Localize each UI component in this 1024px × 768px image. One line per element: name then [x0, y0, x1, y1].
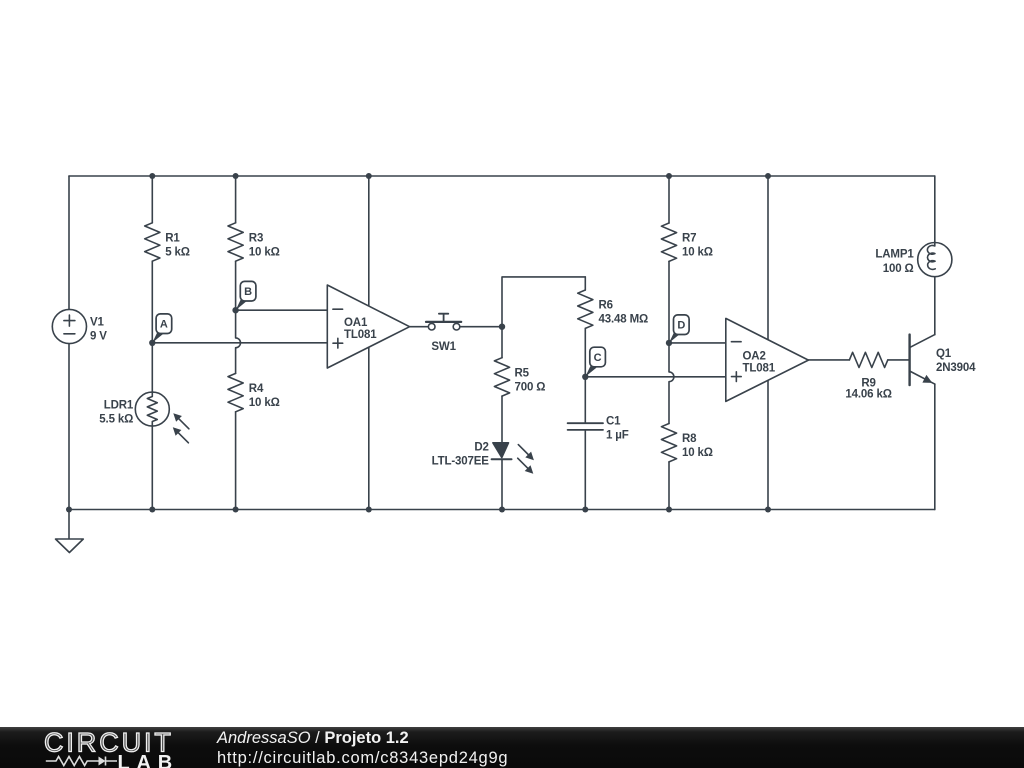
switch SW1 [426, 314, 461, 330]
capacitor C1 plates [568, 423, 603, 430]
R8 value label [682, 433, 713, 459]
wire R4 to bottom rail [235, 412, 237, 510]
R6 value label [599, 299, 649, 325]
svg-text:R5: R5 [515, 367, 530, 379]
wire SW1 to junction [460, 326, 502, 328]
D2 value label [432, 442, 490, 468]
svg-text:D: D [677, 320, 685, 332]
svg-text:TL081: TL081 [743, 363, 776, 375]
svg-text:LAMP1: LAMP1 [875, 249, 914, 261]
wire junction down to R5 [501, 327, 503, 358]
svg-text:2N3904: 2N3904 [936, 362, 976, 374]
wire LAMP1 top lead [934, 176, 936, 243]
wire R1 branch upper [151, 176, 153, 223]
op-amp OA1 [327, 285, 409, 368]
LAMP1 value label [875, 249, 914, 275]
svg-text:LAB: LAB [118, 752, 180, 768]
svg-text:Q1: Q1 [936, 348, 952, 360]
transistor Q1 [910, 335, 935, 386]
resistor R9 horizontal [849, 352, 887, 367]
photoresistor LDR1 [135, 392, 169, 426]
node C junction dot [582, 374, 588, 380]
svg-text:10 kΩ: 10 kΩ [249, 397, 280, 409]
wire R3 to R4 with hop over node A wire [236, 261, 241, 373]
R5 value label [515, 367, 546, 393]
wire D2 to bottom rail [501, 459, 503, 509]
node A label [152, 314, 171, 343]
wire R5 to D2 [501, 396, 503, 443]
wire top rail [69, 175, 935, 177]
svg-text:9 V: 9 V [90, 330, 107, 342]
svg-text:1 µF: 1 µF [606, 429, 629, 441]
svg-text:TL081: TL081 [344, 329, 377, 341]
wire V1 bottom lead to ground [68, 344, 70, 539]
svg-text:C1: C1 [606, 415, 621, 427]
svg-text:700 Ω: 700 Ω [515, 381, 546, 393]
wire node D to OA2 minus input [669, 342, 726, 344]
svg-text:43.48 MΩ: 43.48 MΩ [599, 313, 649, 325]
svg-text:LTL-307EE: LTL-307EE [432, 456, 490, 468]
svg-text:R6: R6 [599, 299, 613, 311]
CircuitLab logo [44, 729, 184, 768]
wire Q1 emitter to bottom rail [934, 384, 936, 509]
svg-text:OA2: OA2 [743, 351, 766, 363]
resistor R1 [145, 223, 160, 261]
wire LDR1 to bottom rail [151, 426, 153, 509]
wire junction up and over to R6 [502, 277, 585, 327]
resistor R4 [228, 373, 243, 411]
logo resistor-diode glyph [46, 757, 117, 766]
OA1 value label [344, 317, 377, 341]
footer title text [217, 730, 409, 746]
V1 value label [90, 316, 107, 342]
svg-text:SW1: SW1 [431, 341, 456, 353]
svg-text:5.5 kΩ: 5.5 kΩ [99, 414, 133, 426]
ground symbol [56, 539, 84, 553]
wire OA1 output to SW1 [410, 326, 429, 328]
resistor R3 [228, 223, 243, 261]
resistor R7 [661, 223, 676, 261]
R9 value label [845, 377, 891, 400]
wire bottom rail [69, 509, 935, 511]
C1 value label [606, 415, 629, 441]
wire R1 to LDR1 [151, 261, 153, 392]
Q1 value label [936, 348, 976, 374]
R3 value label [249, 233, 280, 259]
svg-text:R4: R4 [249, 383, 264, 395]
wire R9 to Q1 base [888, 359, 909, 361]
svg-text:R8: R8 [682, 433, 697, 445]
svg-text:D2: D2 [474, 442, 488, 454]
svg-text:R7: R7 [682, 233, 696, 245]
svg-text:100 Ω: 100 Ω [883, 263, 914, 275]
wire top corner to R6 [584, 277, 586, 290]
lamp LAMP1 [918, 243, 952, 277]
OA2 value label [743, 351, 776, 375]
svg-text:R3: R3 [249, 233, 263, 245]
resistor R8 [661, 424, 676, 462]
svg-text:LDR1: LDR1 [104, 400, 134, 412]
wire node C to OA2 plus input [585, 376, 726, 378]
wire V1 top lead [68, 176, 70, 309]
LDR1 value label [99, 400, 134, 426]
svg-text:10 kΩ: 10 kΩ [682, 447, 713, 459]
svg-text:10 kΩ: 10 kΩ [682, 247, 713, 259]
R7 value label [682, 233, 713, 259]
node C label [585, 347, 605, 377]
svg-text:A: A [160, 319, 168, 331]
LDR1 light arrows [173, 413, 189, 443]
wire OA2 power rail vertical [767, 176, 769, 510]
wire node B to op-amp minus input [236, 309, 328, 311]
wire LAMP1 to Q1 collector [934, 277, 936, 335]
svg-text:V1: V1 [90, 316, 105, 328]
footer bar [0, 727, 1024, 768]
wire node A to op-amp plus input [152, 342, 327, 344]
svg-text:10 kΩ: 10 kΩ [249, 247, 280, 259]
SW1 value label [431, 341, 456, 353]
switch output junction dot [499, 324, 505, 330]
node A junction dot [149, 340, 155, 346]
wire OA1 power rail vertical [368, 176, 370, 510]
wire OA2 output to R9 [808, 359, 849, 361]
LED D2 [492, 443, 534, 474]
svg-text:R1: R1 [165, 233, 180, 245]
wire R7 branch upper [668, 176, 670, 223]
footer url text [217, 750, 508, 766]
resistor R5 [494, 358, 509, 396]
wire R7 to R8 with hop over node C wire [669, 261, 674, 423]
wire R6 to node C to C1 top plate [584, 328, 586, 423]
node D junction dot [666, 340, 672, 346]
voltage source V1 [52, 309, 86, 343]
svg-text:14.06 kΩ: 14.06 kΩ [845, 388, 891, 400]
svg-text:5 kΩ: 5 kΩ [165, 247, 190, 259]
node B label [236, 281, 256, 310]
R4 value label [249, 383, 280, 409]
wire R8 to bottom rail [668, 462, 670, 510]
node D label [669, 315, 689, 343]
resistor R6 [578, 290, 593, 328]
wire C1 bottom plate to bottom rail [584, 430, 586, 510]
node B junction dot [232, 307, 238, 313]
wire R3 branch upper [235, 176, 237, 223]
svg-text:B: B [244, 286, 252, 298]
svg-text:OA1: OA1 [344, 317, 368, 329]
svg-text:C: C [594, 352, 602, 364]
R1 value label [165, 233, 190, 259]
op-amp OA2 [726, 318, 809, 401]
